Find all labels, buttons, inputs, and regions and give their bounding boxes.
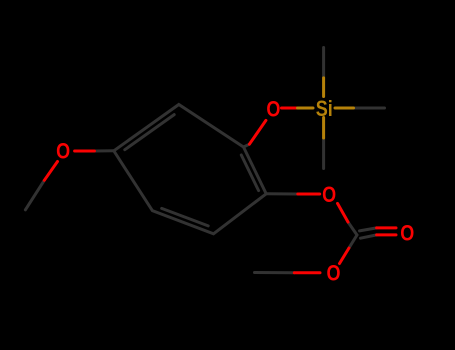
svg-text:O: O (322, 183, 336, 207)
svg-text:O: O (326, 262, 340, 286)
svg-text:O: O (400, 222, 414, 246)
svg-text:Si: Si (316, 97, 333, 121)
svg-text:O: O (266, 98, 280, 122)
svg-text:O: O (56, 140, 70, 164)
